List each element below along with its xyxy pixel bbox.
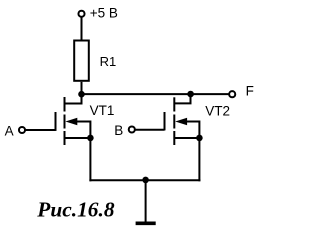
wire <box>191 93 229 95</box>
svg-text:R1: R1 <box>100 54 117 69</box>
transistor VT2 <box>165 94 200 145</box>
junction <box>78 91 85 98</box>
wire <box>89 138 91 181</box>
junction <box>87 135 94 142</box>
wire <box>82 93 191 95</box>
junction <box>142 177 149 184</box>
junction <box>196 135 203 142</box>
wire <box>135 129 164 131</box>
wire <box>25 129 55 131</box>
svg-text:+5 В: +5 В <box>90 5 118 20</box>
svg-text:A: A <box>5 123 14 138</box>
svg-text:B: B <box>114 123 123 138</box>
resistor R1 <box>74 41 89 81</box>
svg-text:VT2: VT2 <box>205 104 230 119</box>
transistor VT1 <box>56 94 91 145</box>
junction <box>187 91 194 98</box>
+5V power terminal <box>78 11 84 17</box>
svg-text:Рис.16.8: Рис.16.8 <box>36 197 115 221</box>
ground <box>136 180 156 223</box>
node B terminal <box>129 126 135 132</box>
wire <box>198 138 200 181</box>
svg-text:VT1: VT1 <box>90 103 115 118</box>
svg-text:F: F <box>246 84 254 99</box>
wire <box>81 82 83 94</box>
node F terminal <box>229 91 235 97</box>
node A terminal <box>19 127 25 133</box>
wire <box>89 179 200 181</box>
wire <box>81 17 83 40</box>
